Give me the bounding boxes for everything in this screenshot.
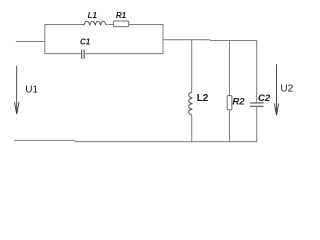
wire top branch left: [45, 24, 84, 26]
wire top branch right: [129, 24, 164, 26]
svg-text:R1: R1: [116, 11, 127, 20]
arrow U2: [274, 64, 278, 115]
wire mid rail right: [210, 40, 257, 42]
svg-text:C2: C2: [258, 93, 271, 104]
capacitor C1: [81, 50, 83, 59]
svg-text:U2: U2: [280, 83, 293, 94]
svg-text:U1: U1: [25, 85, 38, 96]
wire bottom rail left: [14, 139, 75, 141]
inductor L2: [189, 92, 192, 115]
wire L2 branch upper: [191, 40, 193, 93]
wire mid rail left: [163, 39, 210, 41]
wire C2 branch lower: [256, 106, 258, 142]
wire block left vertical: [44, 24, 46, 54]
arrow U1: [15, 66, 20, 114]
svg-text:C1: C1: [80, 37, 91, 46]
wire input left: [16, 41, 45, 43]
wire top branch mid: [108, 24, 114, 26]
svg-text:R2: R2: [232, 96, 245, 107]
svg-text:L2: L2: [197, 93, 209, 104]
wire R2 branch upper: [229, 41, 231, 96]
wire bottom rail right: [75, 141, 257, 143]
wire C2 branch upper: [256, 41, 258, 104]
inductor L1: [83, 21, 108, 25]
resistor R2: [227, 96, 232, 110]
wire R2 branch lower: [229, 110, 231, 142]
wire L2 branch lower: [191, 115, 193, 142]
capacitor C2: [250, 102, 264, 104]
wire bottom branch right: [84, 53, 163, 55]
svg-text:L1: L1: [88, 11, 98, 20]
wire bottom branch left: [45, 53, 82, 55]
resistor R1: [113, 21, 128, 27]
wire block right vertical: [162, 24, 164, 54]
